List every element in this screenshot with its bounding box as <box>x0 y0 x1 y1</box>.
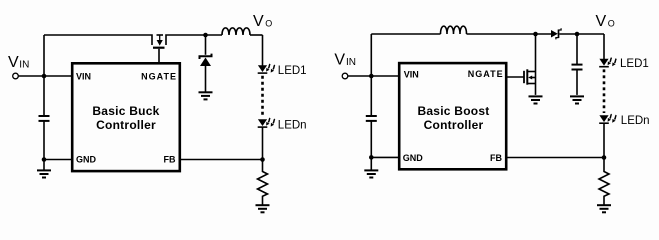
svg-text:O: O <box>608 18 615 28</box>
svg-text:Controller: Controller <box>424 118 484 132</box>
svg-text:NGATE: NGATE <box>141 72 177 82</box>
svg-text:V: V <box>8 54 19 71</box>
svg-text:GND: GND <box>76 155 97 165</box>
svg-text:IN: IN <box>19 60 29 71</box>
svg-text:V: V <box>334 51 345 68</box>
svg-text:GND: GND <box>403 153 424 163</box>
svg-text:Basic Boost: Basic Boost <box>417 104 489 118</box>
svg-text:FB: FB <box>164 155 176 165</box>
svg-text:NGATE: NGATE <box>468 69 504 79</box>
svg-text:FB: FB <box>490 153 502 163</box>
svg-text:LEDn: LEDn <box>621 115 650 127</box>
svg-text:VIN: VIN <box>76 72 91 82</box>
svg-text:LED1: LED1 <box>620 58 649 70</box>
svg-text:V: V <box>253 13 264 30</box>
svg-text:V: V <box>596 13 607 30</box>
svg-text:LEDn: LEDn <box>278 119 307 131</box>
svg-text:VIN: VIN <box>404 69 419 79</box>
svg-text:O: O <box>265 18 272 28</box>
svg-text:Basic Buck: Basic Buck <box>92 104 159 118</box>
svg-text:Controller: Controller <box>96 118 156 132</box>
svg-text:LED1: LED1 <box>278 65 307 77</box>
svg-text:IN: IN <box>346 57 356 68</box>
